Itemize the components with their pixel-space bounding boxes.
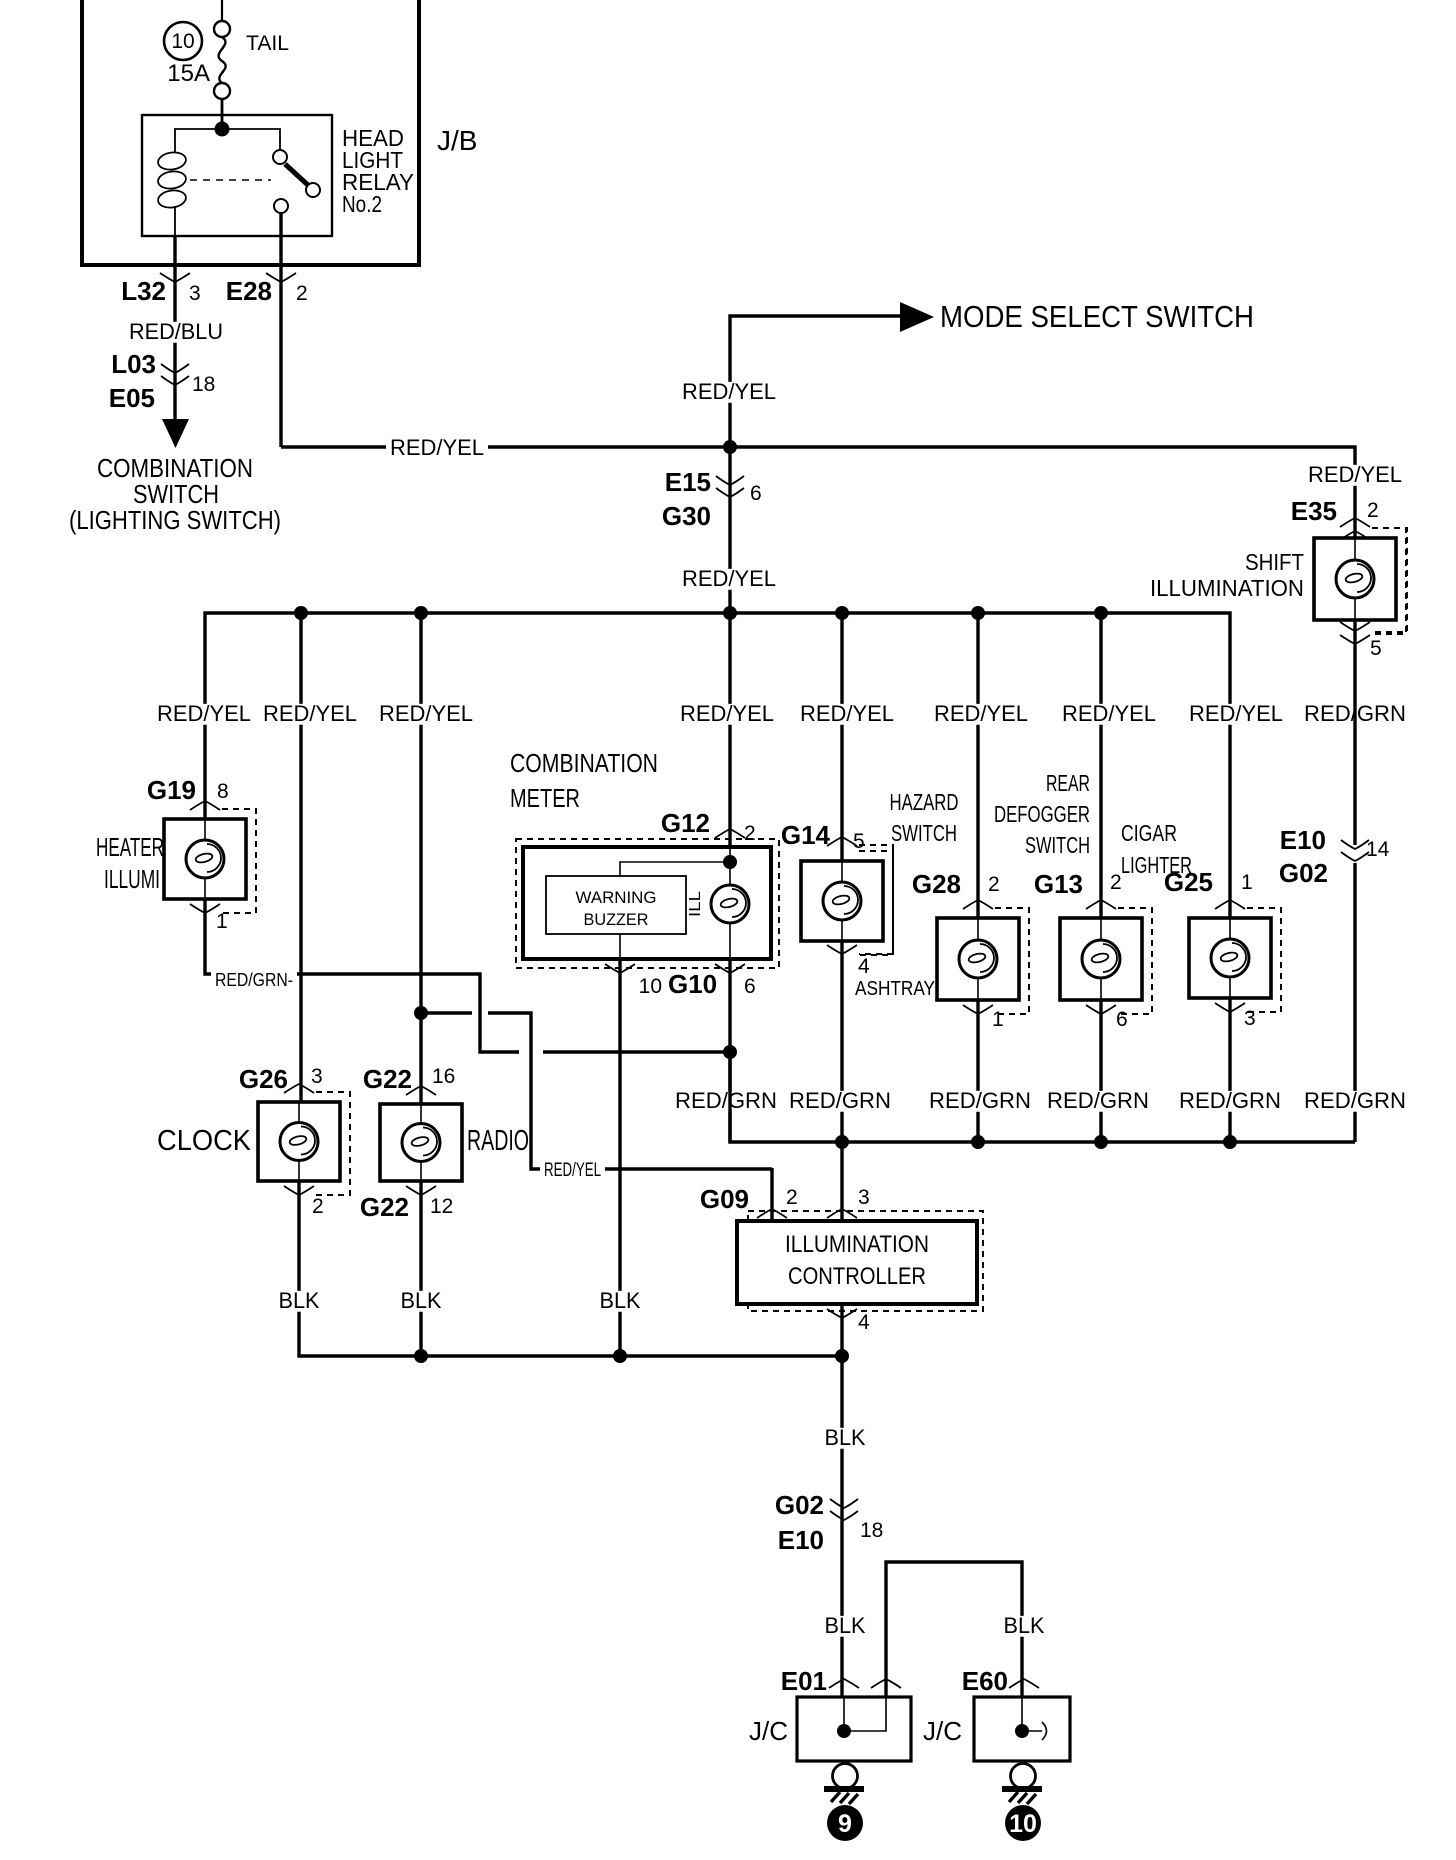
svg-text:J/C: J/C bbox=[749, 1716, 788, 1746]
svg-text:4: 4 bbox=[858, 955, 870, 978]
svg-text:RED/YEL: RED/YEL bbox=[682, 379, 776, 404]
junction connector E01 box bbox=[797, 1697, 911, 1761]
ground id 10 bbox=[1005, 1805, 1041, 1841]
cigar lighter G25 internal wire bbox=[1229, 918, 1231, 939]
E60 internal node and coil bbox=[1021, 1697, 1023, 1731]
cigar lighter G25 connector dashed outline bbox=[1247, 908, 1281, 1012]
fuse TAIL 15A symbol bbox=[214, 21, 230, 37]
ashtray illumination G28 bulb bbox=[959, 940, 997, 978]
svg-text:E35: E35 bbox=[1291, 496, 1337, 526]
relay coil branch wire bbox=[175, 129, 222, 152]
svg-text:CIGAR: CIGAR bbox=[1121, 820, 1177, 846]
svg-text:J/B: J/B bbox=[437, 125, 477, 156]
svg-text:2: 2 bbox=[1367, 499, 1379, 522]
svg-text:G30: G30 bbox=[662, 501, 711, 531]
shift illumination E35 lamp box bbox=[1314, 538, 1396, 620]
svg-text:CLOCK: CLOCK bbox=[157, 1125, 252, 1157]
shift illumination E35 bulb bbox=[1336, 560, 1374, 598]
node RED/GRN meter join bbox=[723, 1045, 737, 1059]
cigar lighter G25 top pin connector bbox=[1215, 900, 1245, 909]
svg-text:3: 3 bbox=[1244, 1007, 1256, 1030]
svg-text:3: 3 bbox=[311, 1065, 323, 1088]
E01 internal node and jumper bbox=[843, 1697, 845, 1731]
clock illumination G26 internal wire bbox=[298, 1102, 300, 1123]
svg-text:2: 2 bbox=[786, 1186, 798, 1209]
J/B junction block box bbox=[82, 0, 419, 265]
buzzer lower wire bbox=[619, 934, 621, 959]
svg-text:L03: L03 bbox=[111, 349, 156, 379]
svg-text:COMBINATION: COMBINATION bbox=[510, 748, 658, 778]
ashtray illumination G28 top pin connector bbox=[963, 900, 993, 909]
svg-text:RED/GRN: RED/GRN bbox=[1047, 1088, 1149, 1113]
svg-text:CONTROLLER: CONTROLLER bbox=[788, 1263, 926, 1290]
inline connector G02/E10 pin 18 bbox=[830, 1499, 858, 1508]
svg-text:SWITCH: SWITCH bbox=[891, 820, 957, 846]
svg-text:G09: G09 bbox=[700, 1184, 749, 1214]
svg-text:J/C: J/C bbox=[923, 1716, 962, 1746]
svg-text:ILL: ILL bbox=[687, 891, 704, 917]
hazard switch G14 lamp box bbox=[801, 861, 883, 941]
svg-text:RED/GRN: RED/GRN bbox=[675, 1088, 777, 1113]
svg-text:BLK: BLK bbox=[825, 1613, 866, 1638]
inline connector L03/E05 pin 18 bbox=[161, 364, 189, 373]
svg-text:BLK: BLK bbox=[825, 1425, 866, 1450]
svg-text:HAZARD: HAZARD bbox=[890, 789, 959, 815]
ashtray illumination G28 connector dashed outline bbox=[995, 908, 1029, 1014]
hazard switch G14 internal wire bbox=[841, 861, 843, 882]
wire radio drop bbox=[419, 613, 422, 1104]
wire fuse to relay bbox=[221, 99, 224, 131]
relay switch blade bbox=[285, 164, 309, 186]
svg-text:REAR: REAR bbox=[1046, 770, 1090, 796]
svg-text:RED/YEL: RED/YEL bbox=[1308, 462, 1402, 487]
wire label RED/GRN shift bottom bbox=[1300, 1091, 1410, 1112]
wire label RED/YEL mode branch bbox=[678, 382, 780, 403]
svg-text:BLK: BLK bbox=[600, 1288, 641, 1313]
svg-text:G22: G22 bbox=[360, 1192, 409, 1222]
node radio branch bbox=[414, 1006, 428, 1020]
svg-text:ILLUMINATION: ILLUMINATION bbox=[1150, 575, 1304, 601]
svg-text:E60: E60 bbox=[962, 1666, 1008, 1696]
wire radio ground BLK bbox=[419, 1181, 422, 1356]
svg-text:RADIO: RADIO bbox=[467, 1125, 529, 1157]
illumination controller box bbox=[737, 1221, 977, 1304]
radio illumination G22 lamp box bbox=[380, 1104, 462, 1181]
heater illumination G19 bulb bbox=[186, 840, 224, 878]
svg-text:2: 2 bbox=[1110, 871, 1122, 894]
RED/GRN bus node bbox=[1223, 1135, 1237, 1149]
wire E15 to bus bbox=[728, 447, 731, 613]
wire G28 to bus bbox=[976, 1000, 979, 1142]
svg-text:SHIFT: SHIFT bbox=[1245, 549, 1304, 575]
clock illumination G26 lamp box bbox=[258, 1102, 340, 1181]
wire label RED/YEL branch bbox=[540, 1161, 605, 1179]
ground symbol E01 bbox=[833, 1764, 858, 1789]
ground id 9 bbox=[827, 1805, 863, 1841]
svg-text:G26: G26 bbox=[239, 1064, 288, 1094]
hazard switch G14 connector dashed outline bbox=[859, 851, 893, 955]
svg-text:RED/GRN: RED/GRN bbox=[789, 1088, 891, 1113]
svg-text:RED/YEL: RED/YEL bbox=[263, 701, 357, 726]
ground bus node bbox=[835, 1349, 849, 1363]
rear defogger switch G13 lamp box bbox=[1060, 918, 1142, 1000]
svg-text:6: 6 bbox=[1116, 1008, 1128, 1031]
svg-text:RED/YEL: RED/YEL bbox=[390, 435, 484, 460]
svg-text:E28: E28 bbox=[226, 276, 272, 306]
wire label row BLK bbox=[275, 1291, 324, 1312]
combination meter dashed outline bbox=[516, 839, 779, 968]
svg-text:E15: E15 bbox=[665, 467, 711, 497]
wire controller to ground bus bbox=[840, 1304, 843, 1356]
svg-text:G25: G25 bbox=[1164, 867, 1213, 897]
wire mode select branch bbox=[730, 316, 902, 447]
heater illumination G19 internal wire bbox=[204, 819, 206, 840]
inline connector pin 14 bbox=[1341, 840, 1369, 849]
G14 top pin connector bbox=[827, 837, 857, 846]
svg-text:BLK: BLK bbox=[401, 1288, 442, 1313]
E35 connector dashed outline bbox=[1372, 528, 1407, 632]
connector G10 pin 10 bbox=[605, 964, 635, 973]
svg-text:18: 18 bbox=[192, 373, 215, 396]
svg-text:10: 10 bbox=[1009, 1810, 1037, 1838]
svg-text:G12: G12 bbox=[661, 808, 710, 838]
rear defogger switch G13 internal wire bbox=[1100, 918, 1102, 940]
clock illumination G26 bottom pin connector bbox=[284, 1186, 314, 1195]
rear defogger switch G13 bottom pin connector bbox=[1086, 1005, 1116, 1014]
svg-text:RED/YEL: RED/YEL bbox=[682, 566, 776, 591]
svg-text:15A: 15A bbox=[167, 60, 210, 87]
svg-text:E10: E10 bbox=[1280, 825, 1326, 855]
radio illumination G22 bottom pin connector bbox=[406, 1186, 436, 1195]
svg-text:10: 10 bbox=[639, 975, 662, 998]
svg-text:9: 9 bbox=[838, 1810, 852, 1838]
shift illumination E35 connector dashed outline bbox=[1372, 528, 1406, 634]
wire clock drop bbox=[299, 613, 302, 1102]
meter ILL bulb bbox=[711, 885, 749, 923]
svg-text:TAIL: TAIL bbox=[246, 32, 289, 55]
clock illumination G26 connector dashed outline bbox=[316, 1092, 350, 1195]
relay actuation dashed link bbox=[190, 179, 271, 181]
svg-text:1: 1 bbox=[992, 1008, 1004, 1031]
svg-text:4: 4 bbox=[858, 1311, 870, 1334]
wire main ground drop bbox=[840, 1356, 843, 1697]
heater illumination G19 connector dashed outline bbox=[222, 809, 256, 913]
svg-text:G02: G02 bbox=[1279, 858, 1328, 888]
svg-text:BUZZER: BUZZER bbox=[584, 911, 649, 929]
wire radio RED/YEL branch bbox=[421, 1011, 472, 1014]
connector L32 pin 3 bbox=[160, 273, 190, 282]
wire meter lamp to RED/GRN bus bbox=[728, 959, 731, 1142]
headlight relay No.2 box bbox=[142, 115, 332, 236]
relay switch output contact bbox=[274, 199, 288, 213]
wire relay coil to L32 bbox=[173, 236, 176, 419]
wire RED/GRN jog to meter node bbox=[543, 1050, 730, 1053]
svg-text:12: 12 bbox=[430, 1195, 453, 1218]
relay input node bbox=[215, 122, 230, 137]
relay switch fixed contact bbox=[273, 150, 287, 164]
inline connector E15/G30 pin 6 bbox=[716, 476, 744, 485]
svg-text:3: 3 bbox=[858, 1186, 870, 1209]
fuse 10 circled label bbox=[164, 22, 202, 60]
cigar lighter G25 bottom pin connector bbox=[1215, 1003, 1245, 1012]
wire ashtray drop bbox=[976, 613, 979, 918]
RED/GRN bus node bbox=[1094, 1135, 1108, 1149]
svg-text:2: 2 bbox=[988, 873, 1000, 896]
wire hazard drop bbox=[840, 613, 843, 861]
svg-text:METER: METER bbox=[510, 783, 580, 813]
connector G10 pin 6 bbox=[715, 964, 745, 973]
svg-text:E05: E05 bbox=[109, 383, 155, 413]
warning buzzer box bbox=[546, 876, 686, 934]
wire label row RED/GRN bbox=[671, 1091, 781, 1112]
rear defogger switch G13 top pin connector bbox=[1086, 900, 1116, 909]
wire label BLK E60 bbox=[1000, 1616, 1049, 1637]
wire G09 pin2 drop bbox=[770, 1168, 773, 1221]
svg-text:RED/GRN: RED/GRN bbox=[1304, 1088, 1406, 1113]
wire label RED/YEL below E15 bbox=[678, 569, 780, 590]
svg-text:DEFOGGER: DEFOGGER bbox=[994, 801, 1090, 827]
E35 bottom pin connector 5 bbox=[1340, 622, 1370, 631]
RED/GRN bus node bbox=[971, 1135, 985, 1149]
connector E28 pin 2 bbox=[266, 273, 296, 282]
wire clock ground BLK bbox=[299, 1181, 842, 1356]
cigar lighter G25 lamp box bbox=[1189, 918, 1271, 998]
svg-text:RED/YEL: RED/YEL bbox=[800, 701, 894, 726]
svg-text:RED/GRN-: RED/GRN- bbox=[215, 969, 293, 990]
wire fuse top feed bbox=[221, 0, 223, 21]
wire E28 horizontal RED/YEL feed bbox=[281, 447, 1355, 541]
svg-text:BLK: BLK bbox=[279, 1288, 320, 1313]
svg-text:18: 18 bbox=[860, 1519, 883, 1542]
ground bus node bbox=[414, 1349, 428, 1363]
RED/GRN bus node bbox=[835, 1135, 849, 1149]
G14 bottom pin connector bbox=[827, 945, 857, 954]
wire buzzer ground drop BLK bbox=[618, 959, 621, 1356]
svg-text:G22: G22 bbox=[363, 1064, 412, 1094]
meter buzzer branch wire bbox=[620, 862, 730, 876]
heater illumination G19 bottom pin connector bbox=[190, 904, 220, 913]
svg-text:RED/BLU: RED/BLU bbox=[129, 319, 223, 344]
shift illumination E35 internal wire bbox=[1354, 538, 1356, 560]
svg-text:No.2: No.2 bbox=[342, 191, 382, 217]
controller pin 4 connector bbox=[827, 1309, 857, 1318]
wire G14 to bus bbox=[840, 941, 843, 1221]
ashtray illumination G28 bottom pin connector bbox=[963, 1005, 993, 1014]
bus junction node bbox=[723, 606, 737, 620]
wire label BLK E01 bbox=[821, 1616, 870, 1637]
svg-text:RED/GRN: RED/GRN bbox=[1179, 1088, 1281, 1113]
wire label RED/GRN heater bbox=[211, 972, 297, 990]
bus RED/GRN return bbox=[730, 1052, 1355, 1142]
svg-text:16: 16 bbox=[432, 1065, 455, 1088]
svg-text:E01: E01 bbox=[781, 1666, 827, 1696]
relay switch right contact bbox=[306, 183, 320, 197]
bus junction node bbox=[414, 606, 428, 620]
wire relay output to E28 bbox=[279, 213, 282, 447]
svg-text:RED/YEL: RED/YEL bbox=[1189, 701, 1283, 726]
bus junction node bbox=[835, 606, 849, 620]
svg-text:G28: G28 bbox=[912, 869, 961, 899]
wire label RED/YEL shift drop bbox=[1304, 465, 1406, 486]
meter internal feed wire bbox=[729, 847, 731, 884]
wire G25 to bus bbox=[1228, 998, 1231, 1142]
illumination controller dashed outline bbox=[748, 1211, 983, 1311]
svg-text:RED/YEL: RED/YEL bbox=[680, 701, 774, 726]
bus junction node bbox=[971, 606, 985, 620]
svg-text:ASHTRAY: ASHTRAY bbox=[855, 978, 935, 1000]
svg-text:6: 6 bbox=[744, 975, 756, 998]
svg-text:G10: G10 bbox=[668, 969, 717, 999]
hazard switch G14 bulb bbox=[823, 882, 861, 920]
svg-text:G14: G14 bbox=[781, 820, 831, 850]
meter internal node bbox=[723, 855, 737, 869]
svg-text:2: 2 bbox=[296, 282, 308, 305]
svg-text:(LIGHTING SWITCH): (LIGHTING SWITCH) bbox=[69, 505, 281, 535]
svg-text:BLK: BLK bbox=[1004, 1613, 1045, 1638]
meter bulb lower wire bbox=[729, 923, 731, 959]
arrow to mode select switch bbox=[900, 302, 934, 332]
svg-text:L32: L32 bbox=[121, 276, 166, 306]
wire label RED/YEL on feed bbox=[386, 438, 488, 459]
arrow to combination switch bbox=[162, 419, 189, 448]
relay coil bbox=[157, 151, 187, 172]
svg-text:E10: E10 bbox=[778, 1525, 824, 1555]
svg-text:RED/GRN: RED/GRN bbox=[929, 1088, 1031, 1113]
svg-text:MODE SELECT SWITCH: MODE SELECT SWITCH bbox=[940, 299, 1254, 334]
relay switch branch wire bbox=[222, 129, 280, 150]
svg-text:5: 5 bbox=[853, 830, 865, 853]
svg-text:1: 1 bbox=[216, 910, 228, 933]
ground bus node bbox=[613, 1349, 627, 1363]
svg-text:8: 8 bbox=[217, 780, 229, 803]
clock illumination G26 bulb bbox=[280, 1123, 318, 1161]
svg-text:14: 14 bbox=[1366, 838, 1390, 861]
svg-text:SWITCH: SWITCH bbox=[1025, 832, 1090, 858]
svg-text:G19: G19 bbox=[147, 775, 196, 805]
illumination bus RED/YEL bbox=[205, 613, 1230, 918]
svg-text:3: 3 bbox=[189, 282, 201, 305]
wire label BLK main bbox=[821, 1428, 870, 1449]
svg-text:HEATER: HEATER bbox=[96, 832, 164, 862]
heater illumination G19 top pin connector bbox=[190, 801, 220, 810]
wire meter drop bbox=[728, 613, 731, 847]
G14 connector dashed outline bbox=[859, 845, 893, 954]
bus junction node bbox=[1094, 606, 1108, 620]
svg-text:1: 1 bbox=[1241, 871, 1253, 894]
svg-text:5: 5 bbox=[1370, 637, 1382, 660]
svg-text:WARNING: WARNING bbox=[576, 889, 657, 907]
svg-text:RED/YEL: RED/YEL bbox=[544, 1160, 601, 1181]
wire G19 to RED/GRN bbox=[205, 899, 519, 1052]
clock illumination G26 top pin connector bbox=[284, 1084, 314, 1093]
cigar lighter G25 bulb bbox=[1211, 939, 1249, 977]
bus junction node bbox=[294, 606, 308, 620]
rear defogger switch G13 connector dashed outline bbox=[1118, 908, 1152, 1014]
combination meter box bbox=[523, 847, 771, 959]
ashtray illumination G28 internal wire bbox=[977, 918, 979, 940]
radio illumination G22 bulb bbox=[402, 1124, 440, 1162]
connector E35 pin 2 bbox=[1340, 518, 1370, 527]
wire label RED/GRN shift bbox=[1300, 704, 1410, 725]
wire E35 to RED/GRN bus bbox=[1353, 620, 1356, 845]
ashtray illumination G28 lamp box bbox=[937, 918, 1019, 1000]
radio illumination G22 internal wire bbox=[420, 1104, 422, 1124]
rear defogger switch G13 bulb bbox=[1082, 940, 1120, 978]
node feed junction bbox=[723, 440, 737, 454]
wire defogger drop bbox=[1099, 613, 1102, 918]
svg-text:ILLUMINATION: ILLUMINATION bbox=[785, 1231, 929, 1258]
wire E60 branch bbox=[886, 1562, 1022, 1697]
heater illumination G19 lamp box bbox=[164, 819, 246, 899]
wire label RED/BLU bbox=[125, 322, 227, 343]
svg-text:G13: G13 bbox=[1034, 869, 1083, 899]
svg-text:RED/YEL: RED/YEL bbox=[379, 701, 473, 726]
ground symbol E60 bbox=[1011, 1764, 1036, 1789]
svg-text:6: 6 bbox=[750, 482, 762, 505]
svg-text:RED/YEL: RED/YEL bbox=[1062, 701, 1156, 726]
svg-text:10: 10 bbox=[171, 30, 194, 53]
svg-text:2: 2 bbox=[312, 1195, 324, 1218]
svg-text:RED/YEL: RED/YEL bbox=[157, 701, 251, 726]
svg-text:ILLUMI: ILLUMI bbox=[104, 864, 160, 894]
wire label row RED/YEL bbox=[153, 704, 255, 725]
radio illumination G22 top pin connector bbox=[406, 1086, 436, 1095]
svg-text:2: 2 bbox=[744, 822, 756, 845]
svg-text:RED/YEL: RED/YEL bbox=[934, 701, 1028, 726]
wire G13 to bus bbox=[1099, 1000, 1102, 1142]
svg-text:G02: G02 bbox=[775, 1490, 824, 1520]
junction connector E60 box bbox=[974, 1697, 1070, 1761]
